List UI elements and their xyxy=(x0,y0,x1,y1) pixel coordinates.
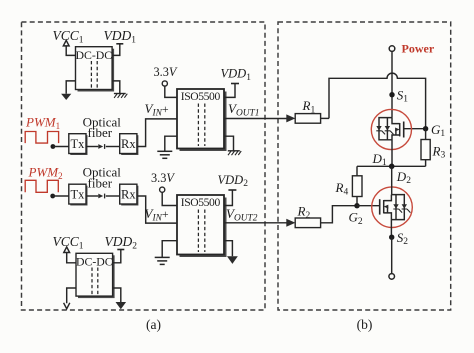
chassis ground U3 output side (hatched) xyxy=(224,136,241,155)
svg-text:Tx: Tx xyxy=(70,188,85,202)
svg-text:DC-DC: DC-DC xyxy=(75,48,112,62)
wire R1 to G1 with hop over power rail xyxy=(329,73,426,129)
svg-text:Power: Power xyxy=(402,41,435,55)
wire VCC1 to U1 with up arrow xyxy=(63,40,75,55)
svg-text:Rx: Rx xyxy=(121,137,136,151)
svg-text:VDD2: VDD2 xyxy=(105,234,138,252)
wire Q1 gate to G1 xyxy=(404,128,426,130)
svg-text:PWM2: PWM2 xyxy=(28,165,63,182)
DC-DC converter U2 xyxy=(76,253,115,298)
ground arrow U2 left (open arrow) xyxy=(64,288,76,309)
chassis ground U1 secondary (hatched) xyxy=(112,81,127,98)
svg-text:3.3V: 3.3V xyxy=(154,65,178,79)
wire VOUT2 to R2 xyxy=(224,222,288,224)
resistor R1 xyxy=(295,114,320,124)
output terminal xyxy=(389,274,395,280)
svg-text:VOUT1: VOUT1 xyxy=(228,101,259,119)
input arrow VOUT2 xyxy=(286,219,295,227)
svg-text:VDD1: VDD1 xyxy=(221,67,252,83)
channel 1 input xyxy=(25,132,58,193)
svg-text:G1: G1 xyxy=(431,122,445,139)
svg-text:VDD2: VDD2 xyxy=(218,173,249,189)
PWM2 waveform xyxy=(25,180,58,192)
svg-text:R4: R4 xyxy=(335,180,349,197)
svg-text:D1: D1 xyxy=(372,151,387,168)
resistor R4 xyxy=(352,166,362,205)
signal ground U4 input side xyxy=(155,241,177,265)
ground U1 primary (solid triangle) xyxy=(61,81,75,100)
boundary box (b) xyxy=(278,22,451,310)
resistor R3 xyxy=(421,129,430,167)
DC-DC converter U1 xyxy=(76,47,115,92)
power ground U4 output side (solid triangle) xyxy=(224,241,238,264)
svg-text:R1: R1 xyxy=(302,98,316,115)
svg-text:ISO5500: ISO5500 xyxy=(181,90,221,103)
svg-text:R2: R2 xyxy=(297,204,311,221)
boundary box (a) xyxy=(22,22,266,310)
svg-text:D2: D2 xyxy=(396,169,411,186)
svg-text:S1: S1 xyxy=(397,87,409,104)
wire Rx1 to U3 VIN+ xyxy=(137,119,177,147)
3.3V terminal ch2 and wire to U4 xyxy=(160,187,177,205)
wire G2 to Q2 gate xyxy=(357,205,380,207)
svg-text:PWM1: PWM1 xyxy=(25,114,60,131)
wire VCC1 to U2 with up arrow xyxy=(64,247,76,263)
VDD2 pin wire U4 xyxy=(224,190,236,206)
Power terminal xyxy=(389,46,395,52)
wire node to Tx1 xyxy=(53,146,69,148)
MOSFET Q1 xyxy=(371,109,411,166)
svg-text:VIN+: VIN+ xyxy=(145,206,169,224)
signal ground U3 input side xyxy=(157,136,177,158)
VDD1 terminal bar and wire xyxy=(112,44,123,56)
wire S2 to output terminal xyxy=(391,237,393,273)
svg-text:S2: S2 xyxy=(397,230,409,247)
wire VOUT1 to R1 xyxy=(224,118,288,120)
gate driver U4 ISO5500 xyxy=(177,195,227,257)
power ground U2 right (solid triangle) xyxy=(113,288,127,309)
svg-text:VCC1: VCC1 xyxy=(53,234,84,252)
S1 node xyxy=(389,92,394,97)
Tx module ch1 xyxy=(69,134,88,155)
3.3V terminal ch1 and wire to U3 xyxy=(162,81,177,98)
svg-text:VIN+: VIN+ xyxy=(145,101,169,119)
resistor R2 xyxy=(295,218,320,228)
Tx module ch2 xyxy=(69,184,88,205)
VDD1 pin wire U3 xyxy=(224,84,239,98)
wire R1 to corner xyxy=(321,117,329,119)
gate driver U3 ISO5500 xyxy=(177,89,227,151)
D node xyxy=(389,164,395,170)
Rx module ch2 xyxy=(120,184,139,205)
wire drain rail D1-D2 xyxy=(357,165,426,167)
svg-text:VDD1: VDD1 xyxy=(104,28,137,46)
MOSFET Q2 xyxy=(372,166,413,237)
node PWM1 input xyxy=(51,144,56,149)
wire Tx2 to Rx2 with optical link symbol xyxy=(86,194,120,199)
wire Rx2 to U4 VIN+ xyxy=(137,196,177,223)
svg-text:DC-DC: DC-DC xyxy=(76,254,113,268)
svg-text:R3: R3 xyxy=(432,143,446,160)
wire Power to Q1 source xyxy=(391,52,393,118)
wire Tx1 to Rx1 with optical link symbol xyxy=(86,144,120,149)
svg-text:3.3V: 3.3V xyxy=(151,171,175,185)
S2 node xyxy=(389,235,394,240)
svg-text:(a): (a) xyxy=(146,317,161,332)
node PWM2 input xyxy=(50,194,55,199)
svg-text:Tx: Tx xyxy=(70,137,85,151)
wire R2 to G2 xyxy=(321,206,357,223)
svg-text:fiber: fiber xyxy=(88,125,113,140)
wire node to Tx2 xyxy=(53,195,69,197)
svg-text:(b): (b) xyxy=(357,317,373,332)
PWM1 waveform xyxy=(25,132,58,144)
svg-text:VCC1: VCC1 xyxy=(53,28,84,46)
Rx module ch1 xyxy=(120,134,139,155)
VDD2 terminal bar and wire xyxy=(113,250,125,263)
svg-text:ISO5500: ISO5500 xyxy=(181,196,221,209)
svg-text:VOUT2: VOUT2 xyxy=(226,206,258,224)
G1 node xyxy=(423,126,428,131)
svg-text:G2: G2 xyxy=(349,210,363,227)
input arrow VOUT1 xyxy=(286,114,295,122)
svg-text:fiber: fiber xyxy=(88,175,113,190)
G2 node xyxy=(354,203,359,208)
svg-text:Rx: Rx xyxy=(121,188,136,202)
